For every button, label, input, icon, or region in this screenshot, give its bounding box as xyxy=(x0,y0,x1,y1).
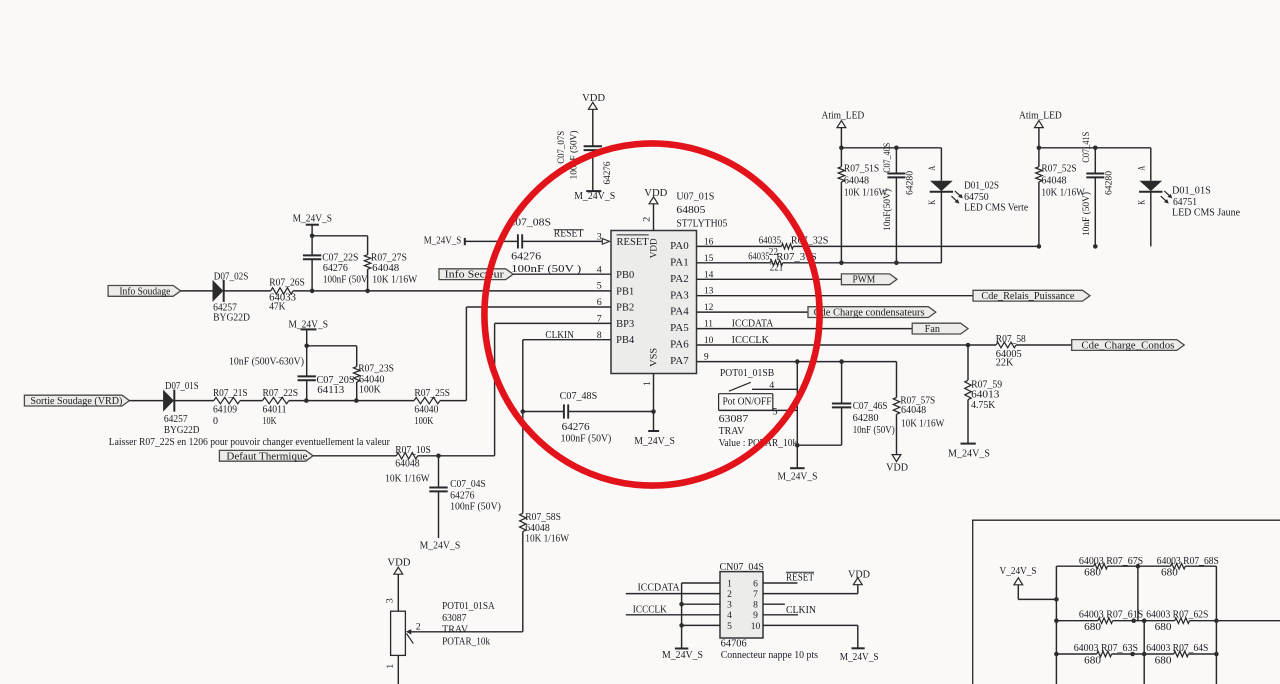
potentiometer POT01_01SA xyxy=(391,601,496,656)
wire right edge vertical (bottom-right) xyxy=(1215,566,1217,684)
wire R07_10S to U07_01S pin 7 xyxy=(418,455,495,457)
net M_24V_S (below R07_59) xyxy=(948,444,990,460)
svg-text:PWM: PWM xyxy=(853,274,876,285)
svg-text:64048: 64048 xyxy=(844,176,869,187)
junction (M_24V_S rail top) xyxy=(310,234,315,239)
wire rail to R07_51S xyxy=(840,148,842,167)
svg-text:6: 6 xyxy=(753,579,758,589)
svg-text:10K: 10K xyxy=(263,416,278,427)
junction (C07_20S rail top) xyxy=(304,344,309,349)
svg-text:Laisser R07_22S en 1206 pour p: Laisser R07_22S en 1206 pour pouvoir cha… xyxy=(109,437,391,448)
junction (rail / C07_41S) xyxy=(1093,146,1098,151)
wire CN07_04S pin 10 to M_24V_S xyxy=(763,624,858,626)
wire Atim_LED rail (group 1) xyxy=(840,128,842,148)
net M_24V_S (left of C07_08S) xyxy=(424,235,465,246)
svg-text:TRAV: TRAV xyxy=(442,624,469,635)
svg-text:100nF (50V): 100nF (50V) xyxy=(561,434,612,445)
svg-text:64257: 64257 xyxy=(164,414,188,425)
svg-text:100nF (50V: 100nF (50V xyxy=(323,274,368,285)
net M_24V_S (above C07_22S) xyxy=(293,214,333,225)
svg-text:Atim_LED: Atim_LED xyxy=(1019,110,1062,121)
junction (R07_23S / row B) xyxy=(354,398,359,403)
net M_24V_S (connector left) xyxy=(662,649,703,662)
wire C07_48S left xyxy=(523,411,564,413)
svg-text:64035,: 64035, xyxy=(759,236,784,247)
svg-text:9: 9 xyxy=(753,611,758,621)
svg-text:Cde Charge condensateurs: Cde Charge condensateurs xyxy=(814,308,925,319)
wire U07_01S pin1 VSS down xyxy=(653,374,655,412)
svg-text:Cde_Charge_Condos: Cde_Charge_Condos xyxy=(1081,340,1174,351)
junction (row3 mid a) xyxy=(1130,652,1135,657)
svg-text:VSS: VSS xyxy=(649,348,659,367)
svg-text:64003 R07_62S: 64003 R07_62S xyxy=(1146,610,1208,621)
svg-text:64276: 64276 xyxy=(562,422,590,433)
svg-text:10K 1/16W: 10K 1/16W xyxy=(901,419,945,430)
svg-text:64040: 64040 xyxy=(414,405,438,416)
svg-text:64109: 64109 xyxy=(213,405,237,416)
svg-text:POT01_01SA: POT01_01SA xyxy=(442,601,495,612)
svg-text:64751: 64751 xyxy=(1173,197,1197,208)
svg-text:4: 4 xyxy=(769,381,774,391)
svg-text:Pot ON/OFF: Pot ON/OFF xyxy=(723,396,772,407)
svg-text:VDD: VDD xyxy=(387,558,410,569)
svg-text:100K: 100K xyxy=(414,416,434,427)
wire rail to LED D01_02S xyxy=(940,148,942,181)
svg-text:64276: 64276 xyxy=(511,251,541,262)
junction (pin16 row / R07_52S) xyxy=(1037,244,1042,249)
wire R07_22S to R07_25S xyxy=(289,400,414,402)
wire U07_01S pin 15 to R07_31S xyxy=(697,262,771,264)
port Cde Charge condensateurs xyxy=(808,307,936,319)
wire M_24V_S to C07_08S xyxy=(465,240,518,242)
junction (pin16 row / C07_41S) xyxy=(1093,244,1098,249)
wire Info Soudage to D07_02S xyxy=(181,290,213,292)
svg-text:LED CMS Verte: LED CMS Verte xyxy=(964,203,1029,214)
diode D07_02S xyxy=(213,272,251,324)
svg-text:10nF (50V): 10nF (50V) xyxy=(1081,192,1092,236)
svg-text:C07_22S: C07_22S xyxy=(322,253,358,264)
wire R07_58 to Cde_Charge_Condos xyxy=(1016,344,1072,346)
svg-text:5: 5 xyxy=(773,408,778,418)
svg-text:100nF (50V): 100nF (50V) xyxy=(569,131,580,180)
net M_24V_S (below U07_01S VSS) xyxy=(634,412,675,448)
resistor R07_58 xyxy=(996,334,1026,369)
junction (rail / R07_52S) xyxy=(1037,146,1042,151)
wire C07_08S to U07_01S pin 3 xyxy=(522,240,602,242)
svg-text:5: 5 xyxy=(727,622,732,632)
svg-text:10nF (50V): 10nF (50V) xyxy=(853,425,895,436)
junction (pin15 row / R07_51S) xyxy=(839,261,844,266)
wire rail to C07_40S xyxy=(895,148,897,174)
junction (VSS / C07_48S) xyxy=(651,409,656,414)
svg-text:Cde_Relais_Puissance: Cde_Relais_Puissance xyxy=(981,291,1075,302)
wire row1 mid down to row2 xyxy=(1137,566,1139,621)
wire U07_01S pin 10 to R07_58 xyxy=(697,344,997,346)
svg-text:M_24V_S: M_24V_S xyxy=(948,449,990,460)
svg-text:64003 R07_63S: 64003 R07_63S xyxy=(1074,643,1138,654)
svg-text:680: 680 xyxy=(1084,656,1101,667)
svg-text:10K 1/16W: 10K 1/16W xyxy=(844,188,888,199)
power Atim_LED (group 1) xyxy=(822,110,865,127)
svg-text:Sortie Soudage (VRD): Sortie Soudage (VRD) xyxy=(30,396,122,407)
port PWM xyxy=(841,274,897,286)
net M_24V_S (below POT01_01SB) xyxy=(778,445,818,482)
wire CN07_04S pin 9 (CLKIN) xyxy=(763,614,798,616)
resistor R07_52S xyxy=(1036,164,1086,199)
wire R07_52S to pin16 row xyxy=(1038,182,1040,247)
svg-text:R07_58: R07_58 xyxy=(996,334,1026,345)
junction (R07_59 / pin10 row) xyxy=(966,343,971,348)
power VDD (top, above C07_07S) xyxy=(582,93,605,109)
svg-text:D07_01S: D07_01S xyxy=(165,381,199,392)
wire C07_07S to M_24V_S xyxy=(592,150,594,191)
junction (rail / C07_40S) xyxy=(894,146,899,151)
capacitor C07_48S xyxy=(560,391,612,444)
svg-text:M_24V_S: M_24V_S xyxy=(778,471,818,482)
svg-text:C07_46S: C07_46S xyxy=(853,401,888,412)
svg-text:M_24V_S: M_24V_S xyxy=(840,652,879,663)
pin label RESET (inside U07_01S) xyxy=(617,235,649,248)
capacitor C07_08S xyxy=(507,217,581,275)
wire CN07_04S pin 4 (ICCCLK) xyxy=(626,614,720,616)
wire pin9 down through switch xyxy=(796,362,798,446)
svg-text:3: 3 xyxy=(385,598,395,603)
wire C07_46S to M_24V_S node xyxy=(841,407,843,445)
svg-text:64276: 64276 xyxy=(323,263,348,274)
junction (bus / pin5) xyxy=(679,623,684,628)
svg-text:C07_48S: C07_48S xyxy=(560,391,598,402)
svg-text:D01_01S: D01_01S xyxy=(1172,186,1211,197)
svg-text:C07_07S: C07_07S xyxy=(557,131,567,164)
wire U07_01S pin 8 to R07_58S xyxy=(523,339,611,341)
svg-text:680: 680 xyxy=(1084,622,1101,633)
svg-text:680: 680 xyxy=(1155,622,1172,633)
svg-text:47K: 47K xyxy=(269,301,286,312)
switch POT01_01SB xyxy=(719,368,798,449)
resistor R07_61S xyxy=(1079,610,1143,634)
svg-text:64003 R07_68S: 64003 R07_68S xyxy=(1157,556,1219,567)
wire row2 mid down to row3 xyxy=(1143,621,1145,684)
svg-text:R07_32S: R07_32S xyxy=(791,236,829,247)
junction (switch / C07_46S bottom) xyxy=(795,443,800,448)
wire POT01_01SA bottom xyxy=(397,655,399,684)
input arrow at U07_01S RESET pin xyxy=(602,239,609,245)
svg-text:CN07_04S: CN07_04S xyxy=(720,562,765,573)
svg-text:680: 680 xyxy=(1161,568,1178,579)
junction (row2 mid b) xyxy=(1142,618,1147,623)
svg-text:M_24V_S: M_24V_S xyxy=(420,540,461,551)
svg-text:100K: 100K xyxy=(359,385,382,396)
svg-text:K: K xyxy=(928,200,938,205)
resistor R07_22S xyxy=(263,388,299,427)
svg-text:PA2: PA2 xyxy=(670,274,689,285)
svg-text:3: 3 xyxy=(727,601,732,611)
junction (row1 mid) xyxy=(1136,564,1141,569)
svg-text:1: 1 xyxy=(643,381,653,386)
wire pin10 row down to R07_59 xyxy=(967,345,969,380)
svg-text:PB2: PB2 xyxy=(616,303,634,314)
svg-text:C07_40S: C07_40S xyxy=(883,143,893,173)
svg-text:PA1: PA1 xyxy=(670,257,689,268)
svg-text:POT01_01SB: POT01_01SB xyxy=(720,368,775,379)
svg-text:R07_27S: R07_27S xyxy=(371,253,407,264)
svg-text:PB1: PB1 xyxy=(616,286,634,297)
wire VDD to C07_07S xyxy=(592,109,594,146)
svg-text:R07_25S: R07_25S xyxy=(414,388,450,399)
svg-text:R07_21S: R07_21S xyxy=(213,388,248,399)
resistor R07_10S xyxy=(385,445,431,484)
svg-text:ST7LYTH05: ST7LYTH05 xyxy=(676,218,727,229)
svg-text:64035,: 64035, xyxy=(748,252,771,263)
net M_24V_S (connector right) xyxy=(840,648,879,663)
LED D01_02S xyxy=(928,166,1028,214)
wire pin9 down to R07_57S xyxy=(896,362,898,398)
wire CN07_04S pin 7 to VDD xyxy=(763,593,858,595)
wire bus (bottom-right) xyxy=(1055,566,1057,684)
resistor R07_25S xyxy=(414,388,450,427)
svg-text:64003 R07_64S: 64003 R07_64S xyxy=(1146,643,1208,654)
svg-text:64276: 64276 xyxy=(603,161,613,184)
port Cde_Charge_Condos xyxy=(1072,340,1185,352)
svg-text:BYG22D: BYG22D xyxy=(213,313,250,324)
wire C07_04S to M_24V_S xyxy=(438,491,440,538)
wire rail to C07_41S xyxy=(1094,148,1096,174)
svg-text:4.75K: 4.75K xyxy=(971,400,996,411)
svg-text:TRAV: TRAV xyxy=(719,426,746,437)
junction (C07_20S / row B) xyxy=(304,398,309,403)
junction (bus / V_24V_S) xyxy=(1054,597,1059,602)
svg-text:R07_58S: R07_58S xyxy=(525,512,561,523)
svg-text:PA3: PA3 xyxy=(670,290,689,301)
wire C07_22S to row A xyxy=(311,259,313,291)
wire row3 (bottom-right) xyxy=(1056,653,1096,655)
resistor R07_68S xyxy=(1157,556,1219,579)
wire R07_32S to LED group 2 xyxy=(793,245,1039,247)
resistor R07_63S xyxy=(1074,643,1138,667)
wire U07_01S pin 13 to Cde_Relais_Puissance xyxy=(697,295,974,297)
junction (C07_04S / thermal row) xyxy=(436,454,441,459)
capacitor C07_40S xyxy=(882,143,916,231)
svg-text:R07_10S: R07_10S xyxy=(395,445,431,456)
junction (pin9 / C07_46S) xyxy=(839,359,844,364)
junction (row3 mid b) xyxy=(1142,652,1147,657)
wire R07_27S to row A xyxy=(367,269,369,291)
wire R07_23S to row B xyxy=(356,382,358,401)
net M_24V_S (above C07_20S) xyxy=(289,319,329,330)
capacitor C07_41S xyxy=(1081,132,1115,236)
svg-text:64276: 64276 xyxy=(450,490,474,501)
junction (bus / pin3) xyxy=(679,602,684,607)
wire R07_59 to M_24V_S xyxy=(967,400,969,444)
capacitor C07_04S xyxy=(429,479,501,513)
svg-text:1: 1 xyxy=(727,579,732,589)
svg-text:64280: 64280 xyxy=(1105,171,1115,195)
svg-text:M_24V_S: M_24V_S xyxy=(293,214,333,225)
wire row1 (bottom-right) xyxy=(1056,565,1093,567)
wire rail to R07_27S xyxy=(312,235,368,237)
svg-text:VDD: VDD xyxy=(886,463,908,474)
net label RESET (connector) xyxy=(786,572,814,583)
svg-text:R07_26S: R07_26S xyxy=(269,278,305,289)
connector CN07_04S xyxy=(720,562,819,661)
svg-text:64048: 64048 xyxy=(395,458,419,469)
svg-text:K: K xyxy=(1138,200,1148,205)
svg-text:10K 1/16W: 10K 1/16W xyxy=(372,274,418,285)
svg-text:ICCCLK: ICCCLK xyxy=(633,604,668,615)
resistor R07_27S xyxy=(364,253,417,286)
svg-text:7: 7 xyxy=(753,590,758,600)
red annotation circle around U07_01S xyxy=(484,143,819,485)
wire U07_01S pin 11 to Fan xyxy=(697,328,913,330)
svg-text:M_24V_S: M_24V_S xyxy=(662,650,703,661)
svg-text:Info Soudage: Info Soudage xyxy=(119,286,171,297)
box outline (bottom-right area) xyxy=(973,520,1280,684)
diode D07_01S xyxy=(163,381,199,436)
wire CN07_04S pin 1 xyxy=(682,582,720,584)
wire R07_26S to U07_01S pin 5 xyxy=(293,290,611,292)
svg-text:64113: 64113 xyxy=(317,385,344,396)
svg-text:63087: 63087 xyxy=(442,613,466,624)
svg-text:RESET: RESET xyxy=(786,573,814,584)
wire C07_20S to row B xyxy=(306,380,308,400)
port Info Secteur xyxy=(439,269,513,281)
junction (bus / row2) xyxy=(1054,618,1059,623)
wire Info Secteur to U07_01S pin 4 xyxy=(513,273,611,275)
wire CN07_04S pin 3 xyxy=(682,603,720,605)
wire R07_58S to potentiometer wiper xyxy=(522,532,524,632)
svg-text:RESET: RESET xyxy=(617,237,649,248)
wire R07_57S to VDD xyxy=(896,414,898,455)
junction (bus / row3) xyxy=(1054,652,1059,657)
svg-text:221: 221 xyxy=(770,263,784,274)
svg-text:VDD: VDD xyxy=(649,238,659,258)
junction (C07_48S left) xyxy=(521,409,526,414)
svg-text:10nF (500V-630V): 10nF (500V-630V) xyxy=(229,357,304,368)
junction (R07_27S / row A) xyxy=(365,289,370,294)
svg-text:VDD: VDD xyxy=(582,93,605,104)
svg-text:0: 0 xyxy=(213,416,218,427)
wire CN07_04S pin 5 xyxy=(682,624,720,626)
svg-text:10nF(50V): 10nF(50V) xyxy=(882,189,893,231)
svg-text:10K 1/16W: 10K 1/16W xyxy=(525,534,569,545)
wire CN07_04S pin 2 (ICCDATA) xyxy=(626,593,720,595)
svg-text:R07_51S: R07_51S xyxy=(844,164,879,175)
power VDD (connector pin 7) xyxy=(848,570,870,585)
svg-text:10K 1/16W: 10K 1/16W xyxy=(1041,188,1085,199)
svg-text:10: 10 xyxy=(751,622,761,632)
wire D07_02S to R07_26S xyxy=(224,290,271,292)
port Sortie Soudage (VRD) xyxy=(24,395,129,407)
wire rail to LED D01_01S xyxy=(1150,148,1152,181)
svg-text:64048: 64048 xyxy=(1041,176,1066,187)
wire D07_01S to R07_21S xyxy=(174,400,214,402)
svg-text:8: 8 xyxy=(753,601,758,611)
wire R07_51S to pin15 row xyxy=(840,182,842,263)
svg-text:A: A xyxy=(1138,166,1148,171)
svg-text:PA6: PA6 xyxy=(670,340,689,351)
wire C07_41S to pin16 row xyxy=(1094,177,1096,246)
svg-text:A: A xyxy=(928,166,938,171)
resistor R07_67S xyxy=(1079,556,1143,579)
junction (C07_22S / row A) xyxy=(310,289,315,294)
port Fan xyxy=(912,323,968,335)
svg-text:680: 680 xyxy=(1155,656,1172,667)
svg-text:R07_22S: R07_22S xyxy=(263,388,299,399)
wire U07_01S pin 14 to PWM xyxy=(697,278,842,280)
svg-text:64280: 64280 xyxy=(853,413,879,424)
port Cde_Relais_Puissance xyxy=(973,290,1090,302)
junction (row2 mid a) xyxy=(1131,618,1136,623)
wire VDD to POT01_01SA xyxy=(397,574,399,611)
svg-text:100nF (50V ): 100nF (50V ) xyxy=(511,264,581,275)
svg-text:Info Secteur: Info Secteur xyxy=(445,270,505,281)
capacitor C07_20S xyxy=(229,357,355,397)
svg-text:U07_01S: U07_01S xyxy=(676,191,714,202)
svg-text:R07_23S: R07_23S xyxy=(358,363,394,374)
svg-text:V_24V_S: V_24V_S xyxy=(1000,566,1037,577)
svg-text:64750: 64750 xyxy=(964,192,989,203)
svg-text:680: 680 xyxy=(1084,568,1101,579)
port Info Soudage xyxy=(108,286,181,298)
svg-text:PA7: PA7 xyxy=(670,356,689,367)
resistor R07_21S xyxy=(213,388,248,427)
svg-text:C07_04S: C07_04S xyxy=(450,479,486,490)
svg-text:1: 1 xyxy=(386,663,396,668)
svg-text:M_24V_S: M_24V_S xyxy=(634,436,675,447)
resistor R07_32S xyxy=(759,236,829,258)
svg-text:BYG22D: BYG22D xyxy=(164,425,200,436)
junction (right edge / row3) xyxy=(1214,652,1219,657)
resistor R07_62S xyxy=(1146,610,1208,634)
svg-text:22K: 22K xyxy=(996,358,1014,369)
wire Sortie Soudage to D07_01S xyxy=(129,400,163,402)
svg-text:D07_02S: D07_02S xyxy=(214,272,249,283)
wire M_24V_S down to C07_22S xyxy=(311,225,313,256)
svg-text:C07_41S: C07_41S xyxy=(1082,132,1092,163)
svg-text:64003 R07_67S: 64003 R07_67S xyxy=(1079,556,1143,567)
svg-text:2: 2 xyxy=(416,623,421,633)
svg-text:LED CMS Jaune: LED CMS Jaune xyxy=(1172,208,1241,219)
power VDD (above U07_01S pin 2) xyxy=(644,188,667,204)
svg-text:PA5: PA5 xyxy=(670,323,689,334)
svg-text:D01_02S: D01_02S xyxy=(964,180,999,191)
svg-text:BP3: BP3 xyxy=(616,319,634,330)
svg-text:R07_52S: R07_52S xyxy=(1041,164,1076,175)
svg-text:ICCDATA: ICCDATA xyxy=(638,583,681,594)
svg-text:63087: 63087 xyxy=(719,414,749,425)
wire R07_25S to U07_01S pin 6 xyxy=(440,400,466,402)
svg-text:2: 2 xyxy=(727,590,732,600)
wire R07_21S to R07_22S xyxy=(240,400,263,402)
junction (pin9 / switch) xyxy=(795,359,800,364)
wire VDD to U07_01S pin 2 xyxy=(653,204,655,231)
wire U07_01S pin 16 to R07_32S xyxy=(697,245,782,247)
svg-text:Connecteur nappe 10 pts: Connecteur nappe 10 pts xyxy=(721,650,818,661)
junction (right edge / row2) xyxy=(1214,618,1219,623)
resistor R07_51S xyxy=(838,164,888,199)
wire pin9 down to C07_46S xyxy=(841,362,843,404)
op-amp U07_01S (ST7LYTH05 MCU) xyxy=(611,191,727,373)
junction (rail / R07_51S) xyxy=(839,146,844,151)
wire U07_01S pin 9 (PA7) xyxy=(697,361,897,363)
svg-text:64706: 64706 xyxy=(721,638,747,649)
wire CN07_04S pin 6 (RESET) xyxy=(763,582,797,584)
net label RESET (pin 3 wire) xyxy=(554,229,584,240)
resistor R07_23S xyxy=(354,363,395,395)
svg-text:64805: 64805 xyxy=(676,205,705,216)
svg-text:Atim_LED: Atim_LED xyxy=(822,110,865,121)
junction (pin15 row / C07_40S) xyxy=(894,261,899,266)
